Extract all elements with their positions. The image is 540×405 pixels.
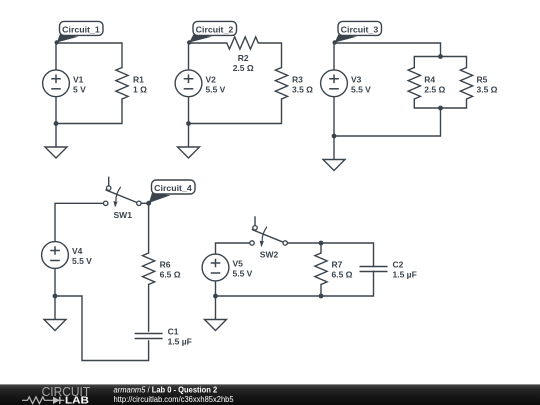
svg-text:V1: V1 — [73, 74, 84, 84]
svg-text:5.5 V: 5.5 V — [351, 84, 371, 94]
svg-text:5.5 V: 5.5 V — [206, 84, 226, 94]
svg-text:SW2: SW2 — [260, 250, 279, 260]
svg-text:R7: R7 — [332, 260, 343, 270]
svg-text:V3: V3 — [351, 74, 362, 84]
svg-text:V4: V4 — [72, 246, 83, 256]
svg-text:6.5 Ω: 6.5 Ω — [160, 270, 181, 280]
svg-text:R5: R5 — [477, 74, 488, 84]
svg-text:R2: R2 — [238, 53, 249, 63]
svg-text:SW1: SW1 — [114, 210, 133, 220]
svg-text:3.5 Ω: 3.5 Ω — [477, 84, 498, 94]
svg-text:Circuit_2: Circuit_2 — [196, 25, 234, 35]
svg-text:5.5 V: 5.5 V — [233, 269, 253, 279]
svg-text:3.5 Ω: 3.5 Ω — [292, 84, 313, 94]
svg-text:1.5 µF: 1.5 µF — [168, 337, 192, 347]
svg-text:http://circuitlab.com/c36xxh85: http://circuitlab.com/c36xxh85x2hb5 — [114, 395, 235, 404]
svg-text:1 Ω: 1 Ω — [133, 84, 147, 94]
svg-text:1.5 µF: 1.5 µF — [393, 270, 417, 280]
svg-text:C2: C2 — [393, 260, 404, 270]
svg-text:V5: V5 — [233, 259, 244, 269]
svg-text:2.5 Ω: 2.5 Ω — [233, 63, 254, 73]
svg-text:R3: R3 — [292, 74, 303, 84]
svg-text:Circuit_1: Circuit_1 — [62, 25, 100, 35]
svg-text:V2: V2 — [206, 74, 217, 84]
svg-text:armanm5 / Lab 0 - Question 2: armanm5 / Lab 0 - Question 2 — [114, 385, 218, 394]
svg-text:R6: R6 — [160, 260, 171, 270]
svg-text:R4: R4 — [424, 74, 435, 84]
svg-text:R1: R1 — [133, 74, 144, 84]
svg-text:5.5 V: 5.5 V — [72, 256, 92, 266]
svg-text:6.5 Ω: 6.5 Ω — [332, 270, 353, 280]
svg-text:5 V: 5 V — [73, 84, 86, 94]
svg-text:C1: C1 — [168, 327, 179, 337]
svg-text:LAB: LAB — [65, 395, 89, 405]
svg-text:Circuit_4: Circuit_4 — [154, 183, 192, 193]
svg-text:2.5 Ω: 2.5 Ω — [424, 84, 445, 94]
svg-text:Circuit_3: Circuit_3 — [341, 25, 379, 35]
